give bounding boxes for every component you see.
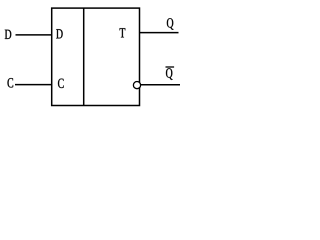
label C (inside box)	[58, 79, 64, 88]
section divider	[83, 8, 85, 105]
overline of Q-bar	[166, 66, 175, 68]
label C (input pin)	[8, 78, 14, 87]
wire Q-bar output	[141, 84, 180, 86]
wire Q output	[140, 32, 179, 34]
wire D input	[16, 34, 52, 36]
label D (inside box)	[56, 29, 62, 38]
flip-flop body U1	[52, 8, 140, 105]
label D (input pin)	[5, 30, 11, 39]
inversion bubble	[133, 82, 140, 89]
label T (inside box)	[120, 28, 126, 37]
wire C input	[15, 84, 52, 86]
label Q-bar (output)	[166, 68, 173, 80]
label Q (output)	[167, 18, 174, 30]
